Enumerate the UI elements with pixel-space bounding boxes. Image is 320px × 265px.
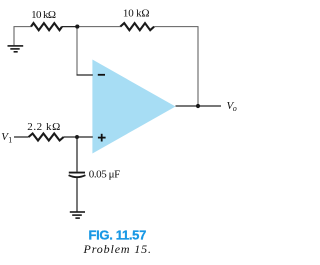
svg-text:10 kΩ: 10 kΩ (31, 9, 56, 21)
svg-text:10 kΩ: 10 kΩ (123, 7, 150, 19)
svg-text:0.05 μF: 0.05 μF (89, 168, 120, 180)
svg-text:1: 1 (8, 136, 12, 145)
svg-text:FIG. 11.57: FIG. 11.57 (89, 227, 147, 242)
svg-text:o: o (233, 104, 237, 113)
svg-text:Problem 15.: Problem 15. (83, 242, 152, 256)
svg-text:2.2 kΩ: 2.2 kΩ (27, 121, 60, 133)
